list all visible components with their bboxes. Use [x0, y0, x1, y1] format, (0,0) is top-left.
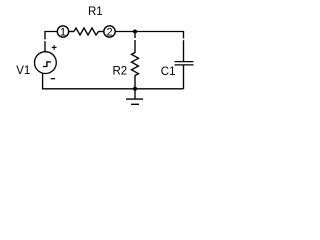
voltage source V1 [35, 52, 57, 74]
junction node top [133, 30, 137, 34]
resistor R2 body and leads [132, 40, 139, 89]
wire bottom [43, 74, 184, 89]
node 1 [57, 26, 68, 37]
svg-text:C1: C1 [161, 66, 176, 78]
junction node bottom [133, 87, 137, 91]
wire top-left from V1 to node 1 [45, 32, 57, 40]
svg-text:R1: R1 [88, 6, 103, 18]
node 2 [104, 26, 115, 37]
wire C1 to bottom wire [183, 65, 185, 89]
V1 step waveform [43, 62, 51, 67]
wire node 2 to top-right corner [115, 32, 183, 39]
wire R1 to node 2 [99, 31, 104, 33]
wire V1 top pin [44, 41, 46, 52]
V1 minus sign [51, 78, 55, 80]
svg-text:2: 2 [106, 26, 112, 38]
wire node 1 to R1 [69, 31, 74, 33]
V1 plus sign [52, 45, 57, 50]
wire node 2 junction to R2 [134, 33, 136, 38]
capacitor C1 [175, 62, 194, 65]
svg-text:1: 1 [60, 26, 66, 38]
ground [126, 89, 143, 105]
resistor R1 [74, 28, 99, 35]
wire C1 top pin [183, 40, 185, 61]
svg-text:R2: R2 [113, 66, 128, 78]
svg-text:V1: V1 [16, 65, 30, 77]
